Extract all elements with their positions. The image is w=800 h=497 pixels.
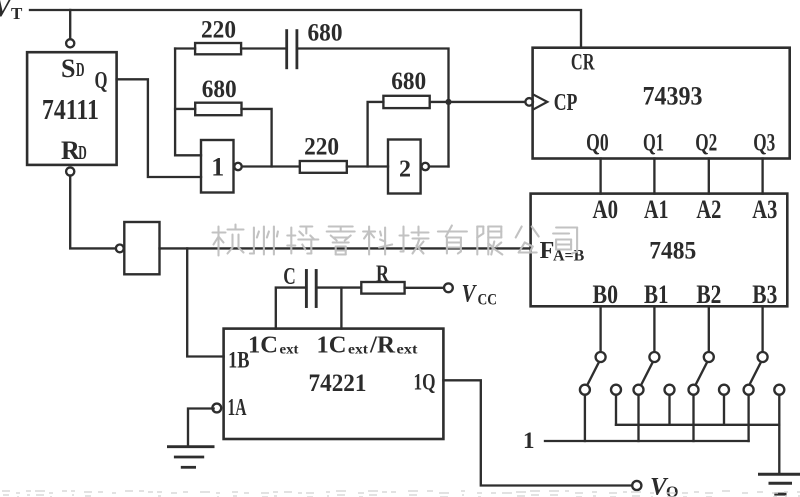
gate 1	[201, 140, 234, 193]
node 1A bubble	[212, 404, 221, 413]
wire gate1 output to 220 mid	[242, 165, 300, 167]
wire Q output to gate 1 lower input	[117, 79, 201, 177]
svg-text:D: D	[76, 60, 85, 81]
wire S3 left contact to bus1	[747, 395, 749, 441]
comparator 7485	[531, 194, 788, 307]
node VT input label	[0, 0, 1, 1]
wire ground bus	[616, 424, 779, 426]
resistor 220 top	[195, 43, 241, 54]
wire S1 left contact to bus1	[637, 395, 639, 441]
wire capacitor to right vertical	[297, 49, 449, 167]
svg-text:B3: B3	[752, 279, 777, 309]
svg-text:R: R	[61, 136, 80, 165]
node junction dot	[445, 99, 451, 105]
svg-text:680: 680	[391, 66, 426, 95]
svg-text:2: 2	[399, 157, 411, 183]
svg-text:74111: 74111	[42, 95, 99, 126]
wire buffer output to FA=B	[160, 247, 531, 249]
wire Q1 to A1	[653, 159, 655, 194]
WATERMARK	[213, 225, 578, 256]
svg-text:B0: B0	[593, 279, 619, 309]
svg-text:1B: 1B	[228, 348, 249, 373]
svg-text:1Q: 1Q	[414, 370, 436, 395]
svg-text:T: T	[11, 4, 23, 23]
node CP inversion bubble	[525, 98, 533, 106]
svg-text:B2: B2	[696, 279, 721, 309]
wire 220 left lead	[175, 47, 195, 49]
wire 1Cext pin up	[276, 288, 305, 329]
wire Q0 to A0	[599, 159, 601, 194]
svg-text:1C: 1C	[248, 333, 278, 359]
wire left vertical bus to gate 1 upper input	[175, 49, 201, 156]
switch S1 lever	[641, 362, 653, 386]
svg-text:O: O	[666, 484, 678, 497]
svg-text:Q2: Q2	[695, 130, 717, 157]
wire 680 right lead to junction	[430, 101, 449, 103]
resistor R	[361, 282, 404, 294]
svg-text:7485: 7485	[649, 238, 696, 265]
flip-flop 74111	[27, 52, 117, 165]
wire S0 left contact to bus1	[584, 395, 586, 441]
svg-text:Q1: Q1	[643, 130, 664, 157]
switch pole circles	[596, 352, 606, 362]
wire S2 left contact to bus1	[692, 395, 694, 441]
node VCC terminal	[444, 283, 453, 292]
node SD terminal circle	[66, 39, 74, 47]
wire R to VCC terminal	[405, 287, 444, 289]
wire 680 right lead down to gate1 output	[242, 109, 272, 167]
svg-text:V: V	[462, 281, 478, 308]
svg-text:A1: A1	[644, 194, 669, 224]
wire 680 left lead	[175, 108, 195, 110]
svg-text:A0: A0	[593, 194, 619, 224]
svg-text:220: 220	[201, 14, 236, 43]
svg-text:220: 220	[304, 131, 339, 160]
svg-text:A2: A2	[696, 194, 721, 224]
wire Q3 to A3	[761, 159, 763, 194]
ground right	[760, 473, 800, 476]
svg-text:A3: A3	[752, 194, 777, 224]
wire gate2 output to vertical junction	[429, 165, 449, 167]
svg-text:R: R	[376, 262, 389, 288]
CP clock triangle	[534, 95, 548, 110]
svg-text:Q3: Q3	[753, 130, 775, 157]
wire junction to CP bubble	[449, 101, 526, 103]
svg-text:ext: ext	[280, 343, 299, 358]
svg-text:1: 1	[211, 153, 224, 182]
svg-text:1C: 1C	[317, 333, 347, 359]
node RD terminal circle	[66, 167, 74, 175]
svg-text:1: 1	[523, 428, 535, 453]
resistor 680 left	[195, 103, 241, 116]
gate 2 output bubble	[422, 163, 429, 170]
svg-text:CC: CC	[478, 292, 498, 309]
wire 220 mid to gate 2 input	[347, 165, 388, 167]
wire 1Q to VO terminal	[443, 380, 632, 485]
svg-text:Q: Q	[95, 68, 108, 94]
svg-text:C: C	[283, 264, 296, 290]
node VO terminal	[632, 481, 641, 490]
svg-text:CP: CP	[554, 90, 578, 116]
svg-text:S: S	[61, 54, 75, 83]
svg-text:74393: 74393	[643, 80, 703, 110]
wire B2 to switch	[708, 306, 710, 352]
svg-text:680: 680	[308, 18, 343, 47]
svg-text:Q0: Q0	[586, 130, 609, 157]
inverter buffer input bubble	[116, 245, 124, 253]
wire branch down to 1B	[187, 248, 223, 356]
wire B1 to switch	[653, 306, 655, 352]
wire top rail from VT to CR	[30, 10, 581, 48]
switch S0 lever	[587, 362, 599, 386]
wire 680 right resistor left lead down	[368, 102, 384, 167]
wire S1 right contact to ground bus	[668, 395, 670, 425]
resistor 220 mid	[300, 161, 347, 173]
wire S0 right contact to ground bus	[615, 395, 617, 425]
switch S3 lever	[749, 362, 761, 386]
wire S2 right contact to ground bus	[723, 395, 725, 425]
inverter buffer box	[124, 222, 159, 274]
counter 74393	[533, 48, 790, 159]
svg-text:1A: 1A	[228, 395, 247, 421]
wire C to R and junction down to 1Cext/Rext	[316, 286, 361, 288]
svg-text:ext: ext	[348, 343, 368, 358]
capacitor C	[305, 271, 308, 307]
wire VT rail to SD terminal	[69, 10, 71, 39]
svg-text:B1: B1	[644, 279, 669, 309]
svg-text:/R: /R	[369, 333, 396, 359]
svg-text:D: D	[78, 143, 87, 164]
svg-text:CR: CR	[571, 50, 595, 75]
wire S3 right contact down to ground	[778, 395, 780, 475]
gate 2	[388, 140, 421, 194]
svg-text:74221: 74221	[309, 370, 367, 397]
wire B3 to switch	[761, 306, 763, 352]
switch S2 lever	[695, 362, 707, 386]
wire logic-1 bus	[545, 440, 749, 442]
wire Q2 to A2	[708, 159, 710, 194]
wire B0 to switch	[599, 306, 601, 352]
svg-text:ext: ext	[397, 343, 418, 358]
ground under 1A	[168, 445, 213, 448]
one-shot 74221	[224, 329, 444, 439]
capacitor 680 top	[285, 31, 288, 68]
gate 1 output bubble	[234, 163, 241, 170]
resistor 680 right	[383, 96, 429, 108]
wire RD to inverter buffer input	[70, 176, 116, 249]
wire 1A to ground	[188, 409, 214, 447]
svg-text:680: 680	[202, 74, 237, 103]
switch contact circles	[580, 385, 590, 395]
wire 220 to capacitor	[241, 47, 287, 49]
